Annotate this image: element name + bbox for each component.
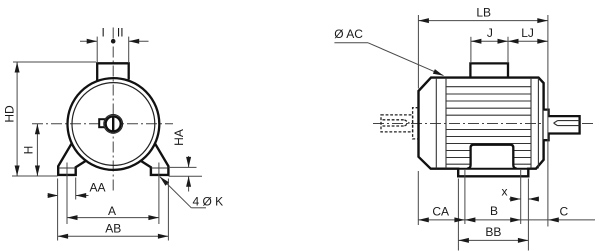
extension line AB right: [167, 179, 169, 241]
dimension A line: [67, 217, 159, 219]
svg-text:4 Ø K: 4 Ø K: [192, 195, 223, 209]
leader O AC: [334, 42, 368, 44]
dimension AA line: [48, 195, 59, 197]
dimension BB line: [458, 239, 528, 241]
svg-text:H: H: [22, 146, 36, 155]
shaft shoulder extension (long): [547, 15, 549, 227]
svg-text:HD: HD: [3, 105, 17, 123]
extension line box left: [96, 37, 98, 63]
motor body outline (side view): [419, 78, 544, 177]
left foot pad top line: [59, 167, 76, 169]
hidden rear boss (dashed): [413, 108, 419, 139]
motor outer housing circle: [68, 78, 160, 170]
dimension I/II line: [80, 40, 97, 42]
foot cutout (side view): [467, 145, 516, 169]
leader 4 O K: [160, 177, 192, 208]
dimension H line: [36, 124, 38, 176]
dimension J extension right: [507, 37, 509, 63]
shaft keyway lines (side view): [554, 121, 580, 126]
svg-text:A: A: [108, 204, 116, 218]
extension line top of box for HD: [13, 61, 96, 63]
svg-text:BB: BB: [485, 225, 501, 239]
dimension I/II center dot: [111, 39, 116, 44]
shaft boss thin circle: [104, 115, 123, 134]
shaft boss and shaft (side view): [544, 110, 580, 141]
svg-text:LB: LB: [476, 5, 491, 19]
svg-text:HA: HA: [172, 129, 186, 146]
centerline horizontal (side view): [373, 123, 595, 125]
svg-text:AA: AA: [89, 181, 105, 195]
dimension J line: [471, 40, 508, 42]
dimension AB line: [58, 235, 169, 237]
extension line AB left: [57, 179, 59, 241]
extension line left foot hole center: [66, 163, 68, 225]
svg-text:I: I: [102, 25, 105, 39]
dimension J extension left: [470, 37, 472, 63]
dimension CA/B/C line: [418, 219, 595, 221]
centerline vertical (front view): [112, 28, 114, 193]
extension line AA right: [75, 178, 77, 200]
extension line right foot hole center: [158, 163, 160, 225]
hidden rear shaft (dashed): [381, 108, 418, 139]
right foot pad top line: [151, 167, 168, 169]
svg-text:x: x: [502, 185, 508, 199]
left foot (front view): [58, 143, 86, 175]
centerline horizontal (front view): [32, 123, 173, 125]
svg-text:CA: CA: [432, 204, 449, 218]
extension line BB left: [457, 179, 459, 251]
svg-text:J: J: [487, 26, 493, 40]
end-bell flange line 1: [435, 78, 437, 168]
svg-text:LJ: LJ: [521, 26, 534, 40]
dimension LB extension left: [417, 15, 419, 89]
extension line BB right: [527, 179, 529, 251]
svg-text:C: C: [559, 205, 568, 219]
extension line right foot hole (side view): [520, 169, 522, 224]
svg-text:AB: AB: [105, 222, 121, 236]
svg-text:II: II: [117, 25, 124, 39]
shaft keyway (front view): [99, 119, 105, 127]
motor inner housing circle: [72, 83, 155, 166]
svg-text:B: B: [490, 204, 498, 218]
terminal box (front view): [97, 63, 129, 81]
drive-end flange line 2: [537, 78, 539, 168]
terminal box (side view): [470, 63, 508, 77]
svg-text:Ø AC: Ø AC: [334, 27, 363, 41]
cooling fin lines: [446, 87, 531, 165]
dimension LB line: [418, 20, 547, 22]
baseline extension (ground): [12, 175, 58, 177]
right foot (front view): [140, 143, 168, 175]
extension line CA left: [417, 171, 419, 225]
shaft key slot line: [112, 116, 114, 132]
dimension x line: [509, 198, 521, 200]
extension line left foot hole (side view): [464, 169, 466, 224]
drive-end flange line 1: [530, 78, 532, 168]
shaft end thick circle: [106, 116, 121, 131]
dimension HD line: [16, 62, 18, 176]
end-bell flange line 2: [445, 78, 447, 168]
extension line foot pad bottom for HA: [169, 175, 202, 177]
dimension LJ line: [508, 40, 548, 42]
extension line box right: [128, 37, 130, 63]
extension line foot pad top for HA: [169, 166, 197, 168]
dimension HA line: [188, 156, 190, 167]
foot pad top line (side view): [458, 168, 528, 170]
